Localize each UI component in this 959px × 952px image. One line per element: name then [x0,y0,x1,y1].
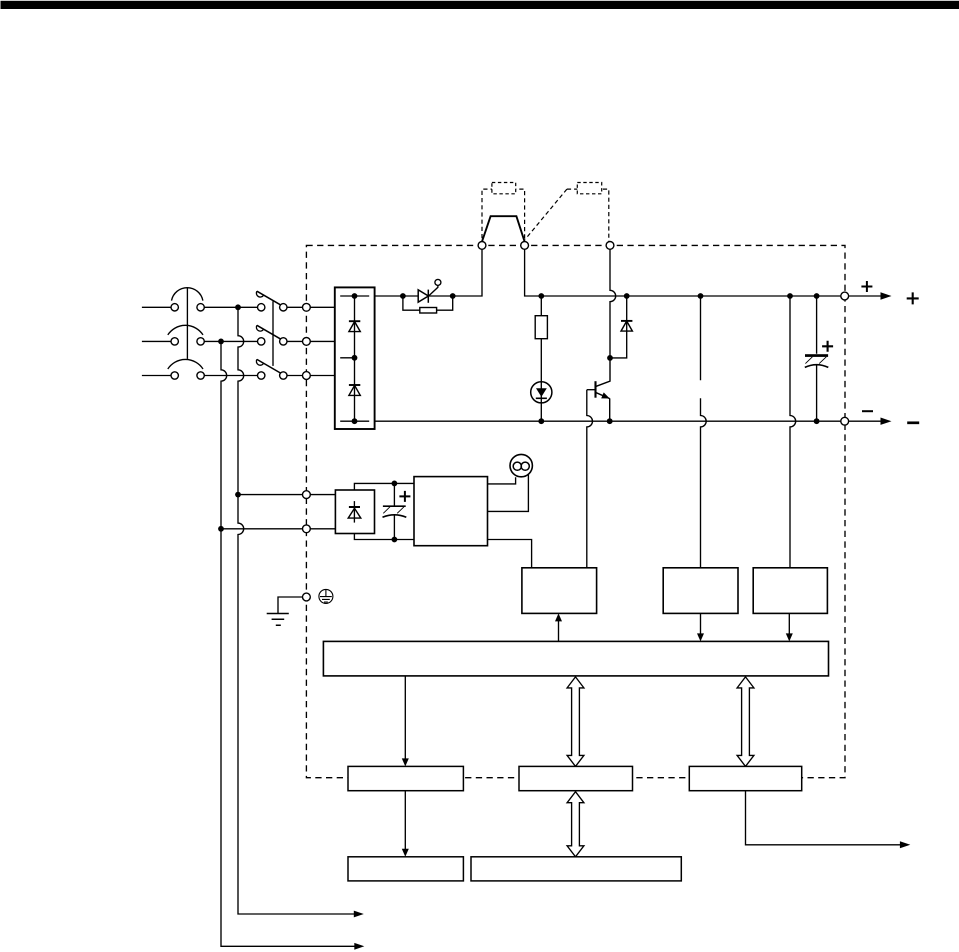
terminal DC minus output [841,417,849,425]
control board (long box) [323,641,828,676]
node junction row2 / feeder B [218,339,224,345]
thyristor (charge circuit) [418,285,438,302]
shorting bar (jumper trapezoid) [482,216,525,241]
wire contactor to terminal row 2 [287,340,335,342]
smoothing capacitor (electrolytic) [805,296,833,421]
magnetic contactor linkage [272,301,274,366]
minus label small [862,410,873,412]
wire charge resistor bypass [403,296,453,310]
wire control feed 1 [238,494,335,496]
voltage detect block [663,568,738,614]
node LED to minus rail [538,418,544,424]
circuit breaker linkage [186,288,188,359]
thyristor gate terminal circle [435,279,441,285]
monitor block [753,568,827,614]
dashed option box 2 [567,189,609,245]
wire L1 input [142,306,171,308]
option connector 2 (small dashed box) [577,183,601,194]
magnetic contactor pole 1 [256,291,287,311]
node control feed 2 [218,526,224,532]
bottom box B [471,857,681,881]
minus label large [907,421,919,424]
wire transistor base down to regen control block, hop over minus rail [587,390,593,568]
interface block left [348,766,463,790]
terminal DC plus output [841,292,849,300]
freewheel diode [621,321,632,331]
wire L3 input [142,375,171,377]
arrowhead feeder B output [354,943,364,950]
magnetic contactor pole 2 [256,325,287,345]
magnetic contactor pole 3 [256,359,287,379]
wire DC plus rail: rectifier to thyristor [375,295,419,297]
control smoothing capacitor [383,483,411,539]
node collector junction [607,355,613,361]
circuit breaker pole 1 [171,288,204,311]
arrow monitor block to control board [788,613,790,635]
plus label small [861,281,872,292]
wire interface right output arrow [746,791,905,845]
wire PSU to fan [488,474,529,511]
wire feeder A (x=238) down to bottom arrow, hops over rows and control feed [238,307,359,914]
terminal control feed 2 [303,525,311,533]
charge LED indicator [531,382,552,403]
option connector 1 (small dashed box) [492,183,516,194]
plus label large [907,292,919,304]
wire L2 input [142,340,171,342]
wire feeder B (x=221) down to bottom arrow, hop over row 3 [221,341,359,946]
node thyristor cathode [450,293,456,299]
hollow double arrow control board / interface right [737,677,754,767]
node thyristor anode [400,293,406,299]
regen transistor Q [587,358,610,421]
node control cap top [392,481,398,487]
node feeder to monitor block [787,293,793,299]
wire contactor to terminal row 3 [287,375,335,377]
terminal control feed 1 [303,491,311,499]
power unit enclosure dashed border [306,245,845,777]
node control feed 1 [235,492,241,498]
node smoothing capacitor bottom [814,418,820,424]
discharge resistor [540,296,542,316]
terminal ground [303,593,311,601]
wire breaker to contactor row 2 [204,340,257,342]
cooling fan [510,454,532,476]
rectifier diode upper [349,321,360,331]
control power supply block [414,477,488,546]
wire DC minus rail [375,420,841,422]
wire thyristor cathode to node [428,249,482,296]
node feeder to voltage-detect block [698,293,704,299]
hollow double arrow control board / interface mid [567,677,584,767]
node freewheel diode top [624,293,630,299]
circuit breaker pole 2 [168,325,205,345]
ground symbol [267,597,303,625]
terminal link 3 [606,242,614,250]
arrow control board to interface block left [404,676,406,761]
rectifier diode lower [349,385,360,395]
wire link terminal 2 down to plus rail, rail to output [525,249,841,296]
hollow double arrow interface mid / bottom box B [567,792,584,857]
wire control feed 2 [221,528,335,530]
control rectifier diode [348,501,361,522]
interface block right [689,766,801,790]
dashed diagonal to link terminal [525,189,567,239]
rectifier internal bus [340,296,369,421]
node discharge resistor branch [538,293,544,299]
protective earth symbol [319,589,333,603]
wire control rectifier outputs to PSU [354,483,414,539]
wire contactor to terminal row 1 [287,306,335,308]
node emitter to minus rail [607,418,613,424]
arrow control board to regen control block [558,620,560,642]
wire minus output arrow [849,420,882,422]
interface block mid [519,766,633,790]
wire PSU to regen control block [488,540,532,568]
terminal link 1 [478,242,486,250]
node smoothing capacitor top [814,293,820,299]
terminal L2 on enclosure [303,338,311,346]
wire feeder to monitor block, hop over minus rail [790,296,796,568]
wire resistor to LED to minus rail [540,339,542,422]
header bar [1,1,959,9]
rectifier node top [352,293,358,299]
dashed option box 1 (external regen unit) [482,189,525,245]
circuit breaker pole 3 [168,359,205,379]
terminal link 2 [521,242,529,250]
wire freewheel diode branch [610,296,627,358]
terminal L1 on enclosure [303,303,311,311]
wire link terminal 3 down, hop over plus rail, to transistor collector [610,249,616,358]
terminal L3 on enclosure [303,372,311,380]
bottom box A [348,857,463,881]
arrow voltage detect block to control board [700,613,702,635]
main rectifier bridge block [335,287,375,429]
arrow interface left to bottom box A [404,791,406,851]
node control cap bottom [392,537,398,543]
control rectifier block [335,490,374,534]
charge resistor [420,308,437,314]
wire breaker to contactor row 1 [204,306,257,308]
rectifier node mid [352,355,358,361]
wire feeder to voltage-detect block, hop over minus rail [701,296,707,568]
wire plus output arrow [849,295,882,297]
rectifier node bottom [352,418,358,424]
node junction row1 / feeder A [235,304,241,310]
arrowhead feeder A output [354,911,364,918]
wire breaker to contactor row 3 [204,375,257,377]
regen control block [522,568,597,614]
